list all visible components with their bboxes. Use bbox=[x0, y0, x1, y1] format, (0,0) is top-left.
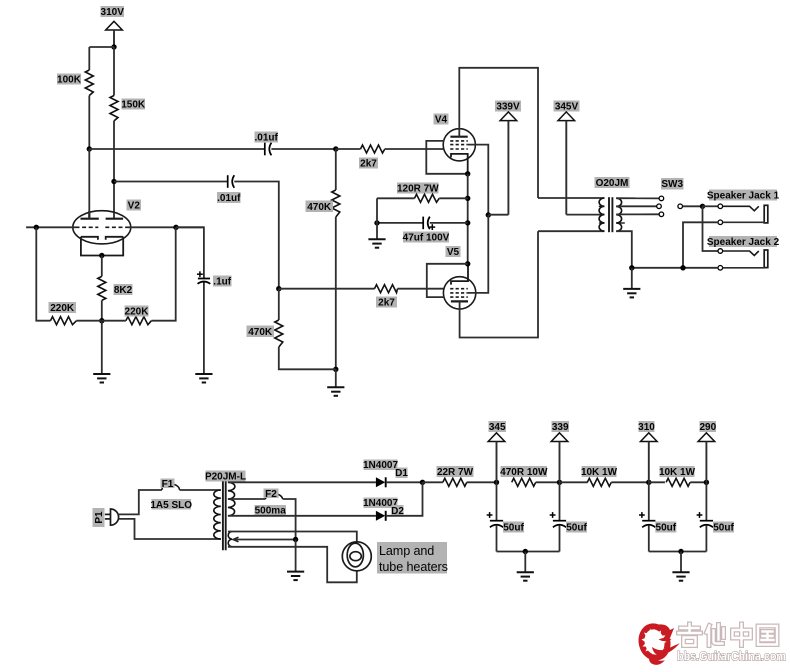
label 22R 7W bbox=[437, 466, 474, 477]
wire 470K left to ground rail bbox=[279, 347, 336, 369]
svg-text:220K: 220K bbox=[50, 303, 75, 314]
tube V4 cathode bbox=[451, 154, 468, 174]
resistor 2k7 upper bbox=[361, 145, 385, 153]
svg-text:.1uf: .1uf bbox=[213, 277, 231, 288]
svg-text:bbs.GuitarChina.com: bbs.GuitarChina.com bbox=[677, 649, 786, 664]
tube V2 grids (dashed) bbox=[76, 226, 129, 228]
wire 120R/47uf to ground bbox=[376, 198, 378, 239]
heater center tap arrow bbox=[233, 537, 239, 542]
svg-text:100K: 100K bbox=[57, 75, 82, 86]
resistor 120R 7W bbox=[415, 194, 440, 202]
label 10K 1W second bbox=[660, 466, 695, 477]
wire V5 plate down to transformer bbox=[460, 231, 538, 337]
capacitor .1uf bbox=[198, 279, 211, 284]
wire heater ct to ground bbox=[295, 540, 297, 572]
power arrow 339V bbox=[500, 112, 517, 215]
label 1N4007 D1 bbox=[364, 460, 398, 471]
node V2 grid left junction bbox=[34, 225, 39, 230]
label 2k7 upper bbox=[359, 158, 378, 169]
jack2 sleeve wire bbox=[723, 267, 765, 269]
node filter ground 1 bbox=[523, 549, 528, 554]
svg-text:8K2: 8K2 bbox=[114, 285, 133, 296]
wire filter ground stub 2 bbox=[680, 552, 682, 573]
node 290 junction bbox=[704, 480, 709, 485]
label 50uf 1 bbox=[503, 522, 524, 533]
wire 2k7 to V4 grid bbox=[385, 148, 445, 150]
label 100K bbox=[57, 74, 81, 85]
label 310 bbox=[639, 421, 655, 432]
svg-text:470K: 470K bbox=[307, 202, 332, 213]
wire node A to cap .01uf bbox=[89, 148, 264, 150]
svg-text:10K 1W: 10K 1W bbox=[659, 467, 696, 478]
wire node D to 2k7 lower bbox=[279, 288, 375, 290]
node 220K center junction bbox=[99, 318, 104, 323]
wire D1 to node bbox=[386, 481, 423, 483]
svg-text:V2: V2 bbox=[128, 201, 141, 212]
node C junction bbox=[111, 179, 116, 184]
svg-text:1A5 SLO: 1A5 SLO bbox=[150, 500, 192, 511]
svg-text:310: 310 bbox=[638, 422, 655, 433]
node heater ct junction bbox=[293, 537, 298, 542]
jack2 sleeve body bbox=[764, 250, 768, 268]
resistor 10K 1W second bbox=[666, 478, 690, 486]
tube V5 envelope bbox=[443, 277, 475, 309]
wire heater center tap bbox=[233, 539, 296, 541]
node V4 cathode junction bbox=[465, 171, 470, 176]
svg-text:500ma: 500ma bbox=[255, 506, 287, 517]
label F2 bbox=[264, 489, 279, 499]
plug P1 bbox=[105, 509, 119, 525]
svg-text:47uf 100V: 47uf 100V bbox=[403, 233, 450, 244]
wire 22R to node 345 bbox=[467, 481, 497, 483]
label 339 bbox=[552, 421, 570, 432]
svg-text:470R 10W: 470R 10W bbox=[500, 467, 548, 478]
plus sign 50uf 1 bbox=[487, 512, 493, 518]
jack1 tip contact bbox=[718, 204, 723, 209]
svg-text:O20JM: O20JM bbox=[596, 178, 629, 189]
power tap arrow 339 bbox=[551, 433, 568, 483]
fuse F2 bbox=[266, 494, 283, 499]
wire ground rail stub down bbox=[631, 268, 633, 289]
watermark char ji bbox=[679, 624, 701, 646]
label 50uf 2 bbox=[566, 522, 587, 533]
label V4 bbox=[434, 114, 449, 125]
tube V5 cathode bbox=[451, 264, 468, 285]
wire heater bottom to lamp bbox=[228, 547, 357, 583]
wire 120R to cathode node bbox=[439, 197, 468, 199]
power arrow 310V bbox=[106, 21, 123, 47]
jack1 sleeve wire bbox=[723, 221, 765, 223]
wire HV top to D1 bbox=[228, 481, 376, 483]
wire 310V rail to 100K branch bbox=[89, 46, 114, 48]
wire .1uf to ground bbox=[203, 283, 205, 375]
svg-text:Lamp and: Lamp and bbox=[379, 544, 434, 558]
wire 470R to node 339 bbox=[536, 481, 560, 483]
wire F2 to ground line bbox=[283, 499, 296, 540]
node V2 cathode junction bbox=[99, 253, 104, 258]
transformer O20JM secondary tick bbox=[616, 222, 625, 224]
resistor 10K 1W first bbox=[587, 478, 611, 486]
ground filter 2 bbox=[672, 572, 689, 581]
label 220K right bbox=[125, 306, 149, 317]
svg-text:10K 1W: 10K 1W bbox=[581, 467, 618, 478]
ground .1uf bbox=[195, 374, 212, 383]
tube V2 cathodes bbox=[81, 237, 123, 256]
jack1 sleeve contact bbox=[718, 220, 723, 225]
wire secondary tap2 bbox=[616, 205, 656, 207]
node jack2 sleeve junction bbox=[680, 265, 685, 270]
label P1 bbox=[93, 508, 105, 527]
label Lamp and tube heaters bbox=[377, 542, 447, 574]
tube V5 grids (dashed) bbox=[450, 289, 468, 297]
capacitor C2 .01uf bbox=[228, 175, 235, 188]
node transformer ground junction bbox=[629, 265, 634, 270]
wire secondary tap3 bbox=[616, 213, 659, 215]
node junction 310V rail bbox=[111, 44, 116, 49]
ground 47uf node bbox=[368, 239, 385, 248]
node V5 cathode junction bbox=[465, 261, 470, 266]
label D1 bbox=[396, 468, 408, 479]
resistor 220K right bbox=[126, 317, 151, 325]
wire 50uf cap 3 bottom bbox=[648, 525, 650, 551]
capacitor C1 .01uf bbox=[265, 143, 272, 156]
watermark char ta bbox=[707, 625, 724, 646]
resistor 470K right bbox=[332, 190, 340, 217]
switch SW3 throw 1 bbox=[659, 196, 664, 201]
wire V2 grid right bbox=[128, 226, 204, 228]
svg-text:F2: F2 bbox=[265, 489, 277, 500]
label V2 bbox=[127, 200, 142, 211]
transformer O20JM secondary winding bbox=[616, 198, 621, 231]
svg-text:339V: 339V bbox=[496, 102, 520, 113]
node 47uf junction bbox=[465, 220, 470, 225]
wire SW3 pole to jack node bbox=[683, 205, 703, 207]
wire 50uf cap 3 top bbox=[648, 482, 650, 520]
wire F1 to primary top bbox=[180, 489, 221, 491]
node 310 junction bbox=[646, 480, 651, 485]
jack1 sleeve body bbox=[764, 205, 768, 223]
wire ground stub bbox=[335, 369, 337, 387]
tube V2 plates bbox=[81, 211, 124, 219]
plus sign 50uf 2 bbox=[550, 512, 556, 518]
label 290 bbox=[700, 421, 717, 432]
wire left branch down bbox=[36, 227, 50, 320]
label 8K2 bbox=[114, 284, 133, 295]
label C1 .01uf bbox=[255, 132, 279, 143]
plus sign 47uf bbox=[429, 224, 435, 230]
transformer O20JM core bbox=[609, 197, 612, 232]
wire primary top lead bbox=[538, 197, 605, 199]
svg-text:1N4007: 1N4007 bbox=[363, 460, 398, 471]
capacitor 47uf 100V bbox=[423, 217, 430, 230]
wire 2k7 lower to V5 grid bbox=[398, 288, 445, 290]
label P20JM-L bbox=[206, 471, 246, 482]
wire 220K right to center bbox=[102, 320, 126, 322]
wire node 310 to 10K second bbox=[649, 481, 665, 483]
svg-text:150K: 150K bbox=[121, 100, 146, 111]
resistor 2k7 lower bbox=[375, 285, 398, 293]
jack2 tip spring bbox=[723, 251, 759, 256]
svg-text:V4: V4 bbox=[435, 115, 448, 126]
svg-text:D1: D1 bbox=[395, 468, 408, 479]
label 50uf 3 bbox=[655, 522, 676, 533]
label 345 bbox=[489, 421, 507, 432]
power tap arrow 345 bbox=[488, 433, 505, 483]
switch SW3 throw 2 bbox=[657, 204, 662, 209]
wire speaker ground rail bbox=[632, 267, 718, 269]
label Speaker Jack 2 bbox=[709, 236, 777, 247]
svg-text:.01uf: .01uf bbox=[217, 193, 241, 204]
wire 50uf cap 4 bottom bbox=[705, 525, 707, 551]
svg-text:50uf: 50uf bbox=[713, 523, 734, 534]
wire secondary bottom lead bbox=[616, 231, 632, 268]
wire plug hot lead bbox=[119, 490, 162, 514]
wire 50uf cap 1 top bbox=[496, 482, 498, 520]
tube V2 envelope bbox=[73, 211, 131, 244]
node screen junction bbox=[486, 212, 491, 217]
node 47uf ground junction bbox=[374, 220, 379, 225]
diode D2 1N4007 bbox=[376, 511, 386, 521]
label C2 .01uf bbox=[217, 192, 241, 203]
wire 50uf cap 2 top bbox=[559, 482, 561, 520]
wire node B to 2k7 bbox=[336, 148, 361, 150]
node 470K ground junction bbox=[333, 367, 338, 372]
lamp symbol bbox=[342, 542, 371, 571]
svg-text:Speaker Jack 2: Speaker Jack 2 bbox=[707, 237, 780, 248]
wire V2 grid left stub bbox=[26, 226, 75, 228]
label V5 bbox=[446, 246, 461, 257]
transformer P20JM-L heater winding bbox=[228, 532, 232, 547]
label 310V bbox=[101, 6, 125, 17]
node D junction bbox=[276, 286, 281, 291]
node V2 grid right junction bbox=[173, 225, 178, 230]
wire V2 right plate feed bbox=[113, 182, 115, 219]
label 1N4007 D2 bbox=[364, 498, 398, 509]
label 500ma bbox=[255, 505, 287, 515]
wire 10K to node 310 bbox=[611, 481, 649, 483]
label 10K 1W first bbox=[582, 466, 617, 477]
svg-text:120R 7W: 120R 7W bbox=[397, 184, 439, 195]
svg-text:470K: 470K bbox=[248, 327, 273, 338]
node jack junction bbox=[700, 204, 705, 209]
wire cathode node to ground bbox=[101, 321, 103, 374]
label 2k7 lower bbox=[376, 297, 397, 308]
wire node 339 to 10K bbox=[560, 481, 588, 483]
node A junction bbox=[87, 146, 92, 151]
wire 47uf right bbox=[430, 222, 468, 224]
ground speaker rail bbox=[623, 289, 640, 298]
resistor 100K bbox=[85, 70, 93, 96]
label 47uf 100V bbox=[403, 232, 449, 243]
svg-text:2k7: 2k7 bbox=[360, 159, 377, 170]
wire node to 22R bbox=[423, 481, 443, 483]
svg-text:tube heaters: tube heaters bbox=[379, 560, 448, 574]
fuse F1 bbox=[162, 484, 180, 490]
svg-text:345V: 345V bbox=[555, 102, 579, 113]
label Speaker Jack 1 bbox=[709, 190, 777, 201]
wire 100K top bbox=[88, 47, 90, 70]
wire plug neutral lead bbox=[119, 519, 221, 539]
resistor 470K left bbox=[275, 320, 283, 347]
wire cathode chain bbox=[467, 174, 469, 264]
tube V4 grids (dashed) bbox=[450, 141, 468, 149]
wire filter ground rail 1 bbox=[497, 551, 560, 553]
label F1 bbox=[161, 479, 175, 489]
transformer P20JM-L HV secondary winding bbox=[228, 482, 235, 516]
svg-text:50uf: 50uf bbox=[566, 523, 587, 534]
wire V4 plate up and to transformer bbox=[459, 68, 538, 198]
wire 150K bottom to V2 right plate bbox=[113, 121, 115, 182]
label 470K left bbox=[247, 326, 275, 338]
wire node D to 470K left bbox=[278, 289, 280, 320]
capacitor 50uf 2 bbox=[553, 521, 566, 528]
resistor 220K left bbox=[51, 317, 77, 325]
svg-text:290: 290 bbox=[699, 422, 716, 433]
resistor 150K bbox=[110, 96, 118, 121]
plus sign .1uf bbox=[197, 271, 203, 277]
wire V5 screen tap bbox=[468, 215, 489, 293]
capacitor 50uf 1 bbox=[490, 521, 503, 528]
ground heater ct bbox=[287, 572, 304, 581]
node 120R junction bbox=[465, 196, 470, 201]
switch SW3 throw 3 bbox=[659, 212, 664, 217]
svg-text:F1: F1 bbox=[162, 479, 174, 490]
wire secondary tap1 bbox=[616, 197, 659, 199]
wire 8K2 to 220K node bbox=[101, 300, 103, 320]
wire V4 g3 tie box bbox=[426, 141, 467, 174]
wire 220K right up to grid bbox=[151, 227, 175, 320]
wire V5 g3 tie box bbox=[427, 264, 468, 297]
wire HV center tap to F2 bbox=[228, 498, 266, 500]
wire heater top to lamp bbox=[228, 532, 357, 542]
wire cap C2 to corner bbox=[234, 182, 278, 289]
svg-text:V5: V5 bbox=[447, 247, 460, 258]
node 345 junction bbox=[494, 480, 499, 485]
svg-text:2k7: 2k7 bbox=[378, 298, 395, 309]
label 470K right bbox=[306, 201, 334, 213]
label .1uf bbox=[213, 276, 232, 287]
svg-text:310V: 310V bbox=[101, 7, 125, 18]
label 339V bbox=[495, 101, 521, 112]
wire node B to 470K bbox=[335, 149, 337, 190]
label 1A5 SLO bbox=[152, 499, 192, 510]
label 220K left bbox=[49, 302, 77, 313]
svg-text:220K: 220K bbox=[125, 307, 150, 318]
wire V4 screen tap bbox=[468, 145, 489, 215]
label 50uf 4 bbox=[713, 522, 734, 533]
wire HV bottom to D2 bbox=[228, 515, 376, 517]
tube V5 plate bbox=[451, 300, 468, 302]
wire 470K right to ground node bbox=[335, 217, 337, 369]
watermark char guo bbox=[758, 626, 777, 645]
capacitor 50uf 3 bbox=[642, 521, 655, 528]
ground filter 1 bbox=[517, 572, 534, 581]
transformer P20JM-L primary winding bbox=[214, 490, 221, 539]
wire jack node down to jack2 bbox=[703, 206, 719, 251]
svg-text:50uf: 50uf bbox=[503, 523, 524, 534]
svg-text:22R 7W: 22R 7W bbox=[437, 467, 474, 478]
label O20JM bbox=[595, 177, 630, 188]
label D2 bbox=[392, 505, 404, 516]
resistor 470R 10W bbox=[512, 478, 536, 486]
wire V2 left plate feed bbox=[88, 149, 90, 219]
tube V4 plate bbox=[450, 136, 467, 138]
svg-text:.01uf: .01uf bbox=[255, 133, 279, 144]
jack2 sleeve contact bbox=[718, 266, 723, 271]
wire 220K left to center bbox=[77, 320, 102, 322]
wire 345V to primary center tap bbox=[566, 214, 604, 216]
svg-text:Speaker Jack 1: Speaker Jack 1 bbox=[707, 191, 780, 202]
node 339 junction bbox=[557, 480, 562, 485]
transformer P20JM-L core bbox=[223, 481, 226, 550]
wire cathode to 8K2 bbox=[101, 256, 103, 277]
node B junction bbox=[333, 146, 338, 151]
wire 120R left corner bbox=[377, 197, 415, 199]
svg-text:50uf: 50uf bbox=[656, 523, 677, 534]
label 345V bbox=[554, 101, 580, 112]
switch SW3 pole bbox=[678, 204, 683, 209]
svg-text:P20JM-L: P20JM-L bbox=[205, 472, 246, 483]
wire grid node to .1uf bbox=[176, 227, 204, 278]
svg-text:SW3: SW3 bbox=[661, 179, 683, 190]
wire D2 to node bbox=[386, 482, 423, 516]
wire 47uf left bbox=[377, 222, 423, 224]
ground 470K node bbox=[327, 387, 344, 396]
watermark char zhong bbox=[733, 624, 751, 646]
label 470R 10W bbox=[501, 466, 548, 477]
svg-text:345: 345 bbox=[489, 422, 506, 433]
svg-text:P1: P1 bbox=[94, 511, 105, 524]
wire 150K top bbox=[113, 47, 115, 96]
wire 10K second to node 290 bbox=[690, 481, 706, 483]
wire filter ground rail 2 bbox=[649, 551, 707, 553]
jack2 tip contact bbox=[718, 249, 723, 254]
jack1 tip spring bbox=[723, 206, 759, 211]
svg-text:339: 339 bbox=[552, 422, 569, 433]
label SW3 bbox=[661, 178, 684, 190]
plus sign 50uf 3 bbox=[639, 512, 645, 518]
label 150K bbox=[122, 99, 146, 110]
label 120R 7W bbox=[397, 183, 439, 194]
diode D1 1N4007 bbox=[376, 477, 386, 487]
wire 100K bottom to node A bbox=[88, 96, 90, 150]
ground V2 cathode bbox=[93, 374, 110, 383]
tube V4 envelope bbox=[443, 129, 475, 161]
wire filter ground stub 1 bbox=[524, 552, 526, 573]
power arrow 345V bbox=[558, 112, 575, 215]
wire 50uf cap 1 bottom bbox=[496, 525, 498, 551]
wire 50uf cap 4 top bbox=[705, 482, 707, 520]
power tap arrow 290 bbox=[698, 433, 715, 483]
wire node C to cap C2 bbox=[114, 181, 228, 183]
wire 50uf cap 2 bottom bbox=[559, 525, 561, 551]
power tap arrow 310 bbox=[641, 433, 658, 483]
node rectifier junction bbox=[420, 480, 425, 485]
wire to jack1 tip bbox=[703, 205, 719, 207]
capacitor 50uf 4 bbox=[700, 521, 713, 528]
resistor 22R 7W bbox=[443, 478, 467, 486]
wire cap .01uf to node B bbox=[271, 148, 335, 150]
transformer O20JM primary ticks bbox=[599, 206, 605, 223]
plus sign 50uf 4 bbox=[697, 512, 703, 518]
watermark dragon logo bbox=[638, 624, 680, 665]
resistor 8K2 bbox=[98, 276, 106, 300]
node filter ground 2 bbox=[678, 549, 683, 554]
transformer O20JM primary winding bbox=[599, 198, 604, 231]
wire screen node to 339V bbox=[488, 214, 508, 216]
wire jack1 sleeve to ground rail bbox=[683, 222, 718, 267]
wire primary bottom lead bbox=[538, 230, 605, 232]
